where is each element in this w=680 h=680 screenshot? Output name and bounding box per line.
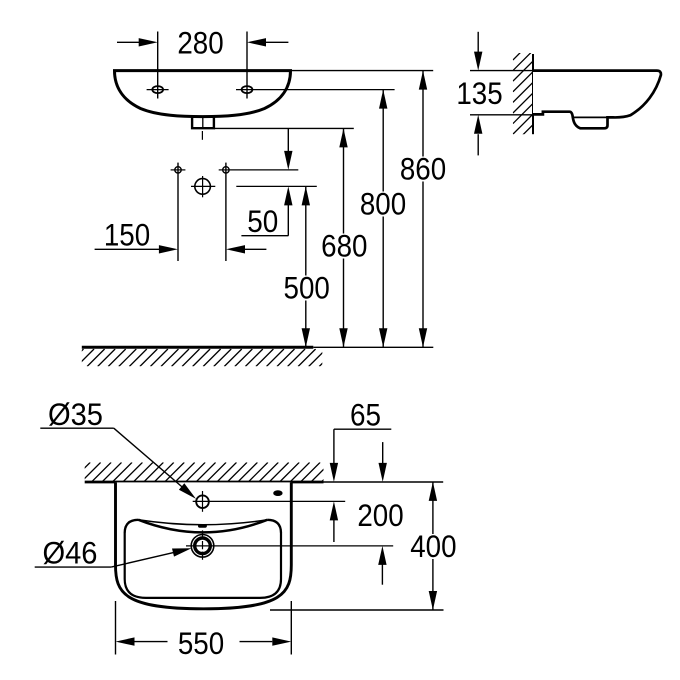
svg-text:200: 200 xyxy=(357,497,403,533)
svg-text:135: 135 xyxy=(456,75,502,111)
svg-text:50: 50 xyxy=(247,203,278,239)
svg-text:65: 65 xyxy=(350,397,381,433)
svg-text:500: 500 xyxy=(284,270,330,306)
svg-text:800: 800 xyxy=(360,186,406,222)
svg-text:550: 550 xyxy=(178,625,224,661)
svg-text:680: 680 xyxy=(321,228,367,264)
svg-text:Ø46: Ø46 xyxy=(43,535,98,571)
svg-text:Ø35: Ø35 xyxy=(48,396,103,432)
svg-text:860: 860 xyxy=(400,151,446,187)
svg-text:400: 400 xyxy=(410,528,456,564)
svg-text:280: 280 xyxy=(177,24,223,60)
svg-text:150: 150 xyxy=(104,217,150,253)
